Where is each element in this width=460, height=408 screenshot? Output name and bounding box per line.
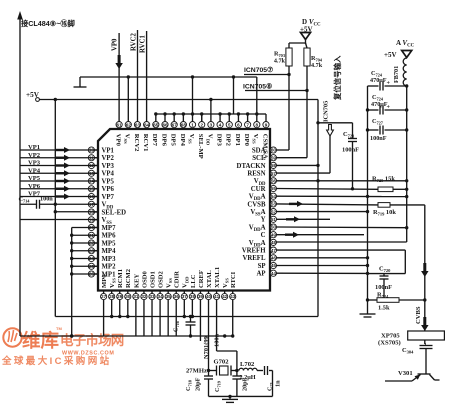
svg-text:G702: G702 — [214, 359, 230, 366]
capacitor C717 1n in series — [257, 366, 282, 396]
svg-text:RCV1: RCV1 — [142, 134, 149, 152]
inductor L702 2.2uH — [239, 361, 257, 381]
svg-text:C: C — [261, 232, 266, 239]
watermark text WeiKu — [22, 326, 62, 351]
resistor R703 4.7k — [274, 48, 292, 66]
svg-text:MP2: MP2 — [102, 264, 117, 271]
capacitor C719 20pF — [214, 369, 249, 397]
left pin labels VP1-VP7, VDD, SEL-ED, VSS, MP7-MP1 — [102, 147, 127, 278]
wire: VCC split bar to R703/R704 — [289, 43, 307, 48]
svg-text:52: 52 — [271, 209, 277, 214]
+5V terminal top-left — [26, 91, 40, 101]
svg-text:100n: 100n — [40, 196, 53, 203]
wire: VSS stub to ground line — [0, 0, 1, 1]
capacitor C304 — [402, 346, 433, 375]
svg-text:35: 35 — [166, 294, 172, 299]
wire: VREFH row to corner — [277, 250, 406, 274]
right pin stubs and numbers — [270, 147, 277, 276]
wire: VDD top pin riser — [210, 100, 212, 122]
svg-text:VP7: VP7 — [28, 191, 41, 198]
svg-text:OSD2: OSD2 — [157, 270, 164, 288]
svg-text:MP5: MP5 — [102, 240, 117, 247]
IC N701 digital video processor, chip body — [98, 129, 270, 291]
wire: CVSB row with bold arrow through R719 to CVBS line — [277, 201, 425, 331]
svg-text:CVSB: CVSB — [247, 201, 266, 208]
svg-text:6: 6 — [237, 122, 240, 127]
svg-text:VP4: VP4 — [102, 171, 115, 178]
wire: VDD bottom distribution line — [55, 315, 318, 318]
svg-text:全球最大IC采购网站: 全球最大IC采购网站 — [1, 355, 112, 367]
svg-text:VP4: VP4 — [28, 167, 41, 174]
svg-text:VP7: VP7 — [102, 194, 115, 201]
wire: CUR row through R725 to A-VCC rail — [277, 187, 409, 191]
svg-text:54: 54 — [271, 194, 277, 199]
label: connect to CL484 pins 9-16 — [21, 19, 75, 28]
svg-text:R719 10k: R719 10k — [373, 209, 396, 217]
wire: SP row to ground rail — [277, 264, 370, 267]
wire: ICN705-7 line to R703 and SDA — [244, 66, 291, 150]
svg-text:TM: TM — [56, 326, 62, 331]
transistor V301 — [385, 370, 440, 381]
svg-text:VP2: VP2 — [102, 155, 115, 162]
svg-text:MP3: MP3 — [102, 256, 117, 263]
wire: ICN705-8 line to R704 and SCL — [245, 66, 309, 158]
watermark text electronics market — [60, 332, 124, 348]
svg-text:XP705: XP705 — [381, 333, 400, 340]
resistor R724 1.5k — [368, 292, 427, 312]
wire: VDD pin stub — [183, 300, 185, 317]
wire: VDDA row to A-VCC rail — [277, 195, 409, 199]
svg-text:+: + — [387, 105, 391, 111]
svg-text:(XS705): (XS705) — [378, 340, 401, 347]
bottom pin stubs to ground line (MP0,KEY,OSD0,OSD1,OSD2,VSS,CDIR) — [104, 300, 177, 336]
svg-text:VREFH: VREFH — [242, 248, 267, 255]
bold down arrow on CVBS line — [421, 263, 429, 277]
label CVBS vertical — [415, 306, 422, 324]
svg-text:VP3: VP3 — [102, 163, 115, 170]
svg-text:OSD0: OSD0 — [141, 270, 148, 288]
svg-text:VP1: VP1 — [28, 144, 40, 151]
svg-text:62: 62 — [126, 122, 132, 127]
wire: crystal ground line — [209, 395, 273, 398]
svg-text:63: 63 — [135, 122, 141, 127]
resistor R704 4.7k — [304, 48, 323, 69]
wire: XTAL1 column with jog — [217, 300, 237, 371]
svg-text:50: 50 — [271, 225, 277, 230]
VP bus rail to CL484 with up arrow — [17, 11, 23, 336]
ground symbol top-left — [74, 77, 87, 90]
capacitor C714 100n on VDD row — [19, 196, 99, 209]
vertical wire RCV1 — [140, 31, 147, 121]
svg-text:27: 27 — [101, 294, 107, 299]
svg-text:41: 41 — [214, 294, 220, 299]
svg-text:32: 32 — [141, 294, 147, 299]
watermark logo circle — [3, 328, 21, 346]
svg-text:36: 36 — [174, 294, 180, 299]
svg-text:RCM1: RCM1 — [117, 269, 124, 288]
label ICN705 vertical with hollow down arrow — [323, 101, 334, 136]
svg-text:38: 38 — [190, 294, 196, 299]
svg-text:复位信号输入: 复位信号输入 — [333, 55, 342, 101]
svg-text:37: 37 — [182, 294, 188, 299]
svg-text:RESN: RESN — [247, 171, 265, 178]
svg-text:CVBS: CVBS — [415, 306, 422, 324]
svg-text:29: 29 — [117, 294, 123, 299]
wire: VSSA row to ground rail — [277, 210, 370, 213]
wire: A-VCC rail elbow into VDDA row 3 — [277, 241, 407, 243]
wires VP1-VP7 from bus to chip with bold arrows — [20, 147, 98, 200]
svg-text:30: 30 — [125, 294, 131, 299]
capacitor C727 100nF — [368, 118, 407, 142]
svg-text:VREFL: VREFL — [242, 255, 266, 262]
svg-text:DP3: DP3 — [215, 134, 222, 147]
bottom pin stubs to VDD line (VSS,RCM1,RCM2) — [112, 300, 128, 317]
wire: CVBS through connector to C304 — [425, 340, 426, 344]
svg-text:ICN705⑦: ICN705⑦ — [244, 66, 273, 74]
svg-text:55: 55 — [271, 186, 277, 191]
labels VP1-VP7 on wires — [28, 144, 41, 198]
svg-text:40: 40 — [206, 294, 212, 299]
svg-text:VP5: VP5 — [102, 178, 115, 185]
svg-text:58: 58 — [271, 163, 277, 168]
wire: Y row with bold arrow — [277, 216, 330, 222]
svg-text:DP1: DP1 — [234, 134, 241, 146]
svg-text:8: 8 — [256, 122, 259, 127]
svg-text:65: 65 — [153, 122, 159, 127]
wire: +5V D rail down — [316, 100, 319, 317]
svg-text:3: 3 — [210, 122, 213, 127]
power symbol A VCC +5V — [384, 39, 415, 59]
svg-text:XTAL: XTAL — [206, 270, 213, 288]
svg-text:100nF: 100nF — [342, 147, 359, 154]
svg-text:DTACKN: DTACKN — [237, 163, 266, 170]
wire: VDDA row 2 to A-VCC rail — [277, 226, 409, 229]
svg-text:SP: SP — [258, 263, 266, 270]
watermark url — [62, 351, 114, 357]
svg-text:SEL-ED: SEL-ED — [102, 209, 127, 216]
wires MP7-MP1 from bus to chip — [72, 228, 98, 275]
svg-text:470μF: 470μF — [370, 77, 387, 84]
svg-text:64: 64 — [144, 122, 150, 127]
left pin stubs and numbers (pins 10-26) — [88, 147, 98, 277]
svg-text:电子市场网: 电子市场网 — [60, 332, 124, 348]
capacitor C720 100nF — [375, 266, 392, 298]
capacitor C721 100nF — [318, 123, 359, 189]
bold down arrow at connector — [421, 317, 429, 331]
svg-text:47: 47 — [271, 248, 277, 253]
svg-text:MP7: MP7 — [102, 225, 117, 232]
capacitor C724 470uF electrolytic — [368, 94, 407, 115]
wire: A-VCC rail — [405, 84, 408, 242]
svg-text:RCV2: RCV2 — [133, 134, 140, 152]
svg-text:FB701: FB701 — [393, 66, 400, 83]
svg-text:AP: AP — [256, 271, 265, 278]
right pin labels SDA,SCL,DTACKN,RESN,VDD,CUR,VDDA,CVSB,VSSA,Y,VDDA,C,VDDA,VREFH,VREFL,SP,AP — [237, 147, 267, 277]
svg-text:MP4: MP4 — [102, 248, 117, 255]
svg-text:ICN705⑧: ICN705⑧ — [243, 83, 272, 91]
svg-text:RCM2: RCM2 — [125, 268, 132, 288]
svg-text:+5V: +5V — [384, 51, 397, 59]
svg-text:MP0: MP0 — [101, 274, 108, 288]
svg-text:VP5: VP5 — [28, 175, 41, 182]
svg-text:44: 44 — [271, 271, 277, 276]
svg-text:CSM/SA: CSM/SA — [261, 134, 268, 159]
svg-text:DP5: DP5 — [170, 134, 177, 147]
svg-text:45: 45 — [271, 263, 277, 268]
label N701(99 part number vertical — [203, 336, 210, 359]
label: reset signal input (Chinese, vertical) — [333, 55, 342, 101]
svg-text:维库: 维库 — [22, 330, 59, 351]
svg-text:DP4: DP4 — [179, 134, 186, 147]
svg-text:LLC: LLC — [190, 274, 197, 288]
svg-text:VP3: VP3 — [28, 160, 41, 167]
label 100n vertical — [214, 333, 221, 347]
power symbol D VCC +5V — [300, 18, 321, 44]
svg-text:1: 1 — [191, 122, 194, 127]
svg-text:DP0: DP0 — [243, 134, 250, 147]
top pin stubs and numbers — [116, 121, 269, 129]
svg-text:9: 9 — [265, 122, 268, 127]
wire: C row with bold arrow — [277, 232, 364, 238]
wire: reset line to RESN — [277, 136, 330, 173]
svg-text:68: 68 — [181, 122, 187, 127]
svg-text:7: 7 — [246, 122, 249, 127]
label ICN705 pin8 — [243, 83, 272, 91]
svg-text:48: 48 — [271, 240, 277, 245]
vertical wire RCV2 — [130, 30, 137, 121]
svg-text:2: 2 — [200, 122, 203, 127]
MP bus vertical — [70, 228, 73, 338]
svg-text:4.7k: 4.7k — [311, 62, 323, 69]
wire: VSS top pin risers — [128, 77, 256, 121]
svg-text:33: 33 — [149, 294, 155, 299]
svg-text:XTAL1: XTAL1 — [214, 267, 221, 288]
top pin labels VP0,VSS,RCV2,RCV1,DP7-DP4,VSS,SEL-MP,VDD,DP3-DP0,VSS,CSM/SA — [115, 134, 269, 159]
svg-text:49: 49 — [271, 232, 277, 237]
capacitor C716 100n — [173, 317, 196, 337]
wire: +5V drop to VDD/SEL-ED rows — [54, 100, 57, 317]
ground symbol crystal network — [222, 396, 238, 402]
svg-text:1.5k: 1.5k — [378, 305, 390, 312]
svg-text:4.7k: 4.7k — [274, 58, 286, 65]
svg-text:39: 39 — [198, 294, 204, 299]
svg-text:67: 67 — [172, 122, 178, 127]
svg-text:4: 4 — [219, 122, 222, 127]
capacitor C718 20pF — [185, 369, 213, 397]
wire: DP data bus tying DP7-DP0 and SEL-MP — [154, 112, 258, 121]
wire: CREF stub — [199, 300, 201, 341]
wire: RTCI column to ground line — [232, 300, 234, 336]
svg-text:66: 66 — [162, 122, 168, 127]
svg-text:46: 46 — [271, 256, 277, 261]
wire: ground riser to DP bus — [232, 75, 235, 114]
svg-text:ICN705: ICN705 — [323, 101, 330, 122]
svg-text:CREF: CREF — [198, 270, 205, 288]
svg-text:RVC2: RVC2 — [130, 33, 137, 51]
svg-text:DP7: DP7 — [151, 134, 158, 147]
wire: XTAL column — [208, 300, 210, 371]
svg-text:SEL-MP: SEL-MP — [197, 134, 204, 159]
bottom pin stubs and numbers (pins 27-43) — [101, 291, 236, 300]
svg-text:31: 31 — [133, 294, 139, 299]
svg-text:CDIR: CDIR — [174, 271, 181, 288]
svg-text:51: 51 — [271, 217, 277, 222]
svg-text:57: 57 — [271, 171, 277, 176]
ferrite bead FB701 — [393, 58, 407, 86]
vertical wire VP0 with bold down arrow — [112, 33, 123, 121]
svg-text:34: 34 — [158, 294, 164, 299]
resistor R719 10k — [373, 203, 396, 217]
svg-text:470μF: 470μF — [371, 101, 388, 108]
svg-text:DP2: DP2 — [225, 134, 232, 147]
wire: AP row to ground rail and C720 branch — [277, 272, 406, 275]
svg-text:VP0: VP0 — [112, 38, 119, 51]
svg-text:VP2: VP2 — [28, 152, 41, 159]
bottom pin labels MP0,VSS,RCM1,RCM2,KEY,OSD0,OSD1,OSD2,VSS,CDIR,VDD,LLC,CREF,XTAL,XTAL1,VSS,RTCI — [101, 267, 237, 288]
resistor R725 15k — [372, 176, 395, 192]
svg-text:56: 56 — [271, 179, 277, 184]
svg-text:MP6: MP6 — [102, 233, 117, 240]
svg-text:VP1: VP1 — [102, 147, 115, 154]
svg-text:VP0: VP0 — [115, 134, 122, 147]
svg-text:43: 43 — [230, 294, 236, 299]
svg-text:L702: L702 — [240, 361, 255, 368]
wire: analog ground rail — [366, 86, 369, 302]
svg-text:61: 61 — [117, 122, 123, 127]
svg-text:R725 15k: R725 15k — [372, 176, 395, 184]
wire: LLC pin stub — [191, 300, 193, 317]
svg-text:2.2μH: 2.2μH — [240, 374, 256, 381]
connector XP705 (XS705) — [378, 331, 444, 347]
svg-text:DP6: DP6 — [160, 134, 167, 147]
svg-text:100nF: 100nF — [370, 135, 387, 142]
svg-text:OSD1: OSD1 — [149, 271, 156, 288]
svg-text:100nF: 100nF — [375, 284, 392, 291]
svg-text:RVC1: RVC1 — [140, 35, 147, 53]
svg-text:1n: 1n — [275, 380, 282, 387]
wire: left rail elbow into ground line — [20, 334, 234, 337]
svg-text:28: 28 — [109, 294, 115, 299]
ground symbol below R724 — [360, 300, 376, 317]
svg-text:RTCI: RTCI — [230, 271, 237, 288]
wire: VDD row to +5V rail and A-VCC rail — [277, 179, 409, 182]
svg-text:27MHz: 27MHz — [186, 368, 207, 375]
svg-text:CUR: CUR — [251, 186, 266, 193]
crystal G702 27MHz — [186, 359, 237, 376]
wire: SEL-ED row to +5V drop — [55, 211, 98, 213]
label ICN705 pin7 — [244, 66, 273, 74]
wire: VREFL row to ground rail — [277, 256, 370, 259]
svg-text:5: 5 — [228, 122, 231, 127]
svg-text:20pF: 20pF — [195, 377, 202, 391]
wire: VSS row to left rail — [20, 219, 98, 221]
svg-text:+: + — [387, 81, 391, 87]
svg-text:59: 59 — [271, 155, 277, 160]
svg-text:Y: Y — [261, 217, 266, 224]
svg-text:42: 42 — [222, 294, 228, 299]
svg-text:VP6: VP6 — [28, 183, 41, 190]
svg-text:53: 53 — [271, 202, 277, 207]
wire: +5V line to the right — [39, 98, 318, 101]
wire: DTACKN row — [277, 164, 318, 166]
svg-text:KEY: KEY — [133, 273, 140, 288]
watermark slogan — [1, 355, 112, 367]
svg-text:接CL484⑨~⑯脚: 接CL484⑨~⑯脚 — [21, 19, 75, 28]
svg-text:VP6: VP6 — [102, 186, 115, 193]
capacitor C723 470uF electrolytic — [368, 70, 407, 91]
svg-text:60: 60 — [271, 148, 277, 153]
wire: VSS ground line — [80, 75, 257, 78]
wire: CSM/SA stub — [257, 114, 266, 121]
svg-text:V301: V301 — [398, 370, 413, 377]
